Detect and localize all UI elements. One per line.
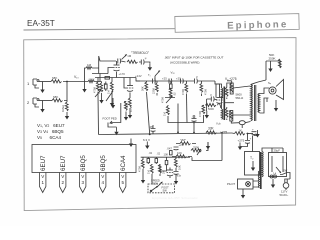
svg-text:6.3 V: 6.3 V [143, 138, 150, 142]
tube legend text [37, 123, 65, 140]
svg-text:V: V [101, 174, 104, 179]
ground (1M) [82, 85, 86, 93]
svg-text:.02: .02 [173, 92, 177, 96]
wire V1 cathode net [95, 77, 136, 79]
wire R2 to grid bus [64, 82, 67, 101]
ground (chart heater) [129, 139, 133, 148]
wire feedback node [206, 99, 208, 111]
speaker SP [268, 80, 284, 100]
svg-text:V₁₀: V₁₀ [74, 75, 79, 79]
svg-text:20μF: 20μF [274, 149, 281, 153]
input jack J1 [27, 79, 39, 88]
pot arrow (treble) [155, 71, 160, 82]
oscillator triode V2b [167, 168, 182, 179]
resistor vertical at bus left [141, 81, 148, 91]
svg-text:56K: 56K [141, 86, 145, 91]
svg-text:FOOT PED: FOOT PED [103, 117, 117, 121]
svg-text:.047: .047 [167, 147, 173, 151]
svg-text:250K: 250K [152, 182, 158, 186]
resistor 100K series grid [88, 77, 95, 82]
main signal bus mid [136, 80, 192, 82]
ground (tremolo cap) [148, 63, 152, 71]
ground (feedback) [205, 111, 209, 119]
ground (filter a) [255, 130, 259, 138]
capacitor .047 (trem) [167, 147, 173, 155]
svg-text:+275: +275 [220, 131, 227, 135]
capacitor 16uF (filter a) [252, 128, 258, 136]
resistor 220K vertical (tone) [152, 81, 159, 96]
resistor 4.7K vertical (mid) [124, 102, 133, 114]
grid resistor upper [225, 86, 228, 99]
ground (V1b cathode) [128, 111, 132, 119]
line plug [283, 181, 289, 190]
tube labels [40, 155, 127, 171]
volume pot P1 500K [93, 78, 102, 98]
svg-text:10K: 10K [164, 153, 169, 157]
pot P2 1M with arrow [106, 78, 113, 102]
osc resistor vertical b [158, 164, 165, 176]
T2 core lines [259, 152, 262, 189]
ground (fuse) [271, 179, 275, 188]
svg-text:470K: 470K [204, 89, 208, 95]
interstage transformer primary winding [222, 88, 223, 98]
cathode resistor R4 with bypass C [97, 82, 108, 97]
capacitor +25 (coupling 2) [176, 77, 183, 84]
output tube V3 (boxed) [230, 83, 233, 94]
wire T2 top to rect [262, 148, 283, 153]
resistor R1 68K [51, 76, 62, 83]
resistor 220K vertical (PI grid) [198, 105, 205, 119]
svg-text:220K: 220K [152, 88, 156, 94]
T2 primary winding [262, 152, 263, 177]
wire secondary to speaker [260, 88, 270, 113]
wire tone bottom [168, 104, 178, 123]
footswitch dashed box [148, 184, 175, 193]
trem pot 2M [176, 138, 196, 145]
resistor 1M tremolo pot body [121, 60, 138, 63]
svg-text:+24V: +24V [135, 74, 142, 78]
svg-text:.02: .02 [157, 152, 161, 156]
svg-text:+275: +275 [238, 139, 245, 143]
triode V1b [127, 74, 142, 96]
tremolo pot wiper arrow [122, 54, 127, 59]
tube socket pointers [40, 173, 126, 193]
osc cap .02 a [147, 151, 153, 164]
wire output stage top [227, 81, 232, 86]
T2 secondary winding (lower) [258, 171, 259, 188]
svg-text:V: V [41, 174, 44, 179]
svg-text:EA-35T: EA-35T [27, 19, 55, 28]
svg-text:V: V [81, 174, 84, 179]
capacitor .05 (trem feed) [149, 125, 156, 134]
bias labels 560 ohm [236, 93, 244, 101]
ground (pilot) [241, 189, 245, 199]
chassis box [32, 145, 136, 173]
svg-text:SW: SW [283, 169, 288, 173]
svg-text:PILOT: PILOT [227, 182, 235, 186]
svg-text:"TREMOLO": "TREMOLO" [131, 51, 149, 55]
osc cap + (right) [174, 143, 184, 150]
cathode bypass cap (oval) [239, 121, 245, 128]
rectifier V5 box [269, 149, 287, 177]
svg-text:V5 6CA4: V5 6CA4 [37, 135, 61, 140]
ground (heater junction) [145, 142, 149, 150]
ground (foot pedal) [114, 127, 118, 135]
oscillator bus [141, 157, 222, 160]
ground (speaker) [274, 100, 278, 112]
osc resistor 1M vertical [147, 164, 154, 176]
ground (vol pots) [98, 95, 114, 135]
junction (1K out) [247, 133, 249, 135]
fuse F 1A [270, 172, 277, 179]
footswitch lever [150, 186, 158, 192]
output transformer T1 primary [251, 85, 253, 121]
capacitor +25 (coupling 1) [162, 77, 172, 84]
svg-text:+170: +170 [119, 72, 126, 76]
wire PI plate up [215, 81, 220, 98]
coupling capacitor (to PI) [192, 75, 215, 84]
svg-text:6CA4: 6CA4 [120, 155, 127, 171]
svg-text:470K: 470K [181, 89, 185, 95]
svg-text:T₀: T₀ [148, 73, 151, 77]
wire PI lower net [178, 119, 204, 125]
capacitor mu (feedback) [207, 93, 217, 102]
ground (jack J2) [40, 101, 44, 113]
capacitor .05 (bottom mid) [192, 115, 197, 125]
wire pilot to T2 [253, 181, 258, 187]
svg-text:"2M": "2M" [180, 138, 186, 142]
bias pot 250K [191, 146, 202, 156]
osc cap electrolytic e [174, 172, 179, 178]
ground (T2 center tap) [251, 161, 255, 171]
svg-text:+: + [252, 128, 254, 132]
svg-text:5600: 5600 [208, 107, 214, 111]
svg-text:6BQ5: 6BQ5 [100, 155, 107, 171]
wire J2 to R2 [39, 100, 52, 102]
heater line 6.3V [143, 92, 151, 142]
capacitor Tf (bus left) [148, 73, 155, 84]
resistor 470K vertical (right leg) [200, 81, 208, 96]
ground (filter b) [238, 143, 242, 151]
capacitor .02 + resistor (tone leg) [169, 81, 176, 97]
node A junction [66, 81, 68, 83]
svg-text:V3 V4 6BQ5: V3 V4 6BQ5 [37, 129, 64, 134]
svg-text:10K: 10K [178, 165, 182, 170]
svg-text:+: + [250, 137, 252, 141]
resistor R2 68K [52, 95, 63, 102]
T1 secondary [258, 94, 260, 113]
wire V1b plate to mid bus [130, 78, 140, 82]
ground arrow (left of footswitch) [111, 98, 115, 109]
ground (jack J1) [40, 82, 44, 94]
capacitor C .02 (coupling to vol) [103, 77, 110, 87]
wire plate rail riser [92, 56, 116, 74]
ground (osc) [141, 176, 145, 184]
svg-text:(ACCESSIBLE WIRE): (ACCESSIBLE WIRE) [170, 61, 200, 65]
wire rail drop to trem bias [178, 123, 222, 161]
resistor R3 1Meg (grid leak) [61, 101, 68, 113]
svg-text:560-Ω: 560-Ω [236, 96, 244, 100]
svg-text:1Meg: 1Meg [61, 105, 65, 112]
footswitch label [162, 186, 170, 193]
svg-text:4.7K: 4.7K [129, 106, 133, 112]
T1 core [255, 85, 256, 121]
svg-text:1M: 1M [163, 112, 167, 116]
svg-text:470K: 470K [138, 166, 142, 172]
svg-text:+25: +25 [179, 143, 184, 147]
svg-text:6EU7: 6EU7 [60, 155, 67, 171]
svg-text:Epiphone: Epiphone [227, 19, 289, 31]
svg-text:μ: μ [196, 75, 198, 79]
speed pot wiper arrow [157, 182, 163, 188]
svg-text:470K: 470K [161, 97, 165, 103]
ground (osc e) [174, 177, 178, 185]
capacitor .1 (tremolo) [139, 56, 150, 65]
resistor 50K/250K top right [266, 53, 281, 68]
svg-text:V₂₀: V₂₀ [171, 71, 176, 75]
input jack J2 [27, 98, 39, 107]
svg-text:V: V [61, 174, 64, 179]
wire osc to footswitch [152, 165, 167, 184]
power transformer T2 box [245, 152, 260, 176]
svg-text:470K: 470K [93, 87, 97, 93]
svg-text:Epiphone EA-35T Schematic: Epiphone EA-35T Schematic [152, 196, 198, 200]
svg-text:6BQ5: 6BQ5 [80, 155, 87, 171]
wire J1 to R1 [39, 81, 51, 83]
osc resistor 470K vertical [138, 157, 145, 176]
wire output plates to OT [231, 86, 250, 123]
ground (R3) [65, 112, 69, 120]
cathode resistor V1b [125, 96, 132, 111]
osc resistor vertical d [174, 157, 181, 171]
line voltage label [280, 190, 289, 198]
B+ rail / long bus [99, 133, 233, 135]
svg-text:470K: 470K [198, 111, 202, 117]
resistor 10K 10W [172, 151, 192, 158]
wire 50K to OT top [251, 61, 267, 85]
foot pedal switch wire [108, 103, 121, 127]
header underline [24, 29, 176, 30]
feedback resistor 5600 [206, 103, 219, 111]
resistor 33K (rail) [206, 127, 217, 135]
interstage transformer core [223, 87, 226, 121]
wire PI plate to interstage [216, 84, 222, 109]
svg-text:.02: .02 [103, 82, 107, 86]
wire interstage mid tap [224, 102, 234, 104]
svg-text:V: V [121, 174, 124, 179]
ground (cathode) [99, 96, 103, 104]
osc cap .02 b [155, 152, 161, 165]
svg-text:33K: 33K [208, 127, 215, 131]
svg-text:6EU7: 6EU7 [40, 155, 47, 171]
wire plug to switch [285, 173, 290, 182]
pilot lamp box [227, 179, 253, 189]
Epiphone logo box [175, 14, 299, 33]
tone pot with arrow [161, 95, 176, 103]
interstage transformer secondary winding [222, 109, 223, 119]
wire to V1b grid [124, 78, 127, 89]
svg-text:+25: +25 [162, 77, 167, 81]
speed pot label [151, 179, 160, 186]
resistor 1M vertical (below tone) [163, 105, 170, 119]
resistor 1K (filter) [232, 129, 253, 135]
resistor vertical (tone leg 2) [181, 81, 188, 123]
capacitor 16uF (filter b) [240, 134, 252, 147]
ground (50K) [268, 61, 272, 72]
ground (bias pot) [206, 142, 210, 151]
output tube V4 (boxed) [230, 111, 233, 122]
svg-text:.005" INPUT @ 100K FOR CASSETT: .005" INPUT @ 100K FOR CASSETTE OUT [164, 56, 224, 60]
capacitor (trem coupling) [118, 59, 121, 64]
wire R1 to node A [63, 81, 88, 83]
svg-text:V1, V2 6EU7: V1, V2 6EU7 [37, 123, 65, 128]
svg-text:.02: .02 [149, 151, 153, 155]
grid resistor lower [225, 107, 228, 120]
wire B+ to T2 top [252, 136, 254, 152]
wire grid riser to V1 [92, 68, 113, 82]
svg-text:1M: 1M [107, 90, 111, 94]
svg-text:1A: 1A [273, 172, 276, 176]
svg-text:1M: 1M [147, 170, 151, 174]
ground (4.7K) [124, 113, 128, 121]
svg-text:250K: 250K [269, 57, 276, 61]
power switch SW [280, 169, 288, 175]
grid resistor 1M [85, 63, 93, 85]
svg-text:50-60~: 50-60~ [280, 193, 289, 197]
svg-text:V₂b: V₂b [216, 122, 221, 126]
triode V2b phase inverter [216, 98, 223, 109]
svg-text:SW: SW [163, 189, 168, 193]
osc cap vertical c [165, 157, 168, 167]
triode V1a [113, 61, 125, 78]
rail junction dots [177, 131, 223, 133]
